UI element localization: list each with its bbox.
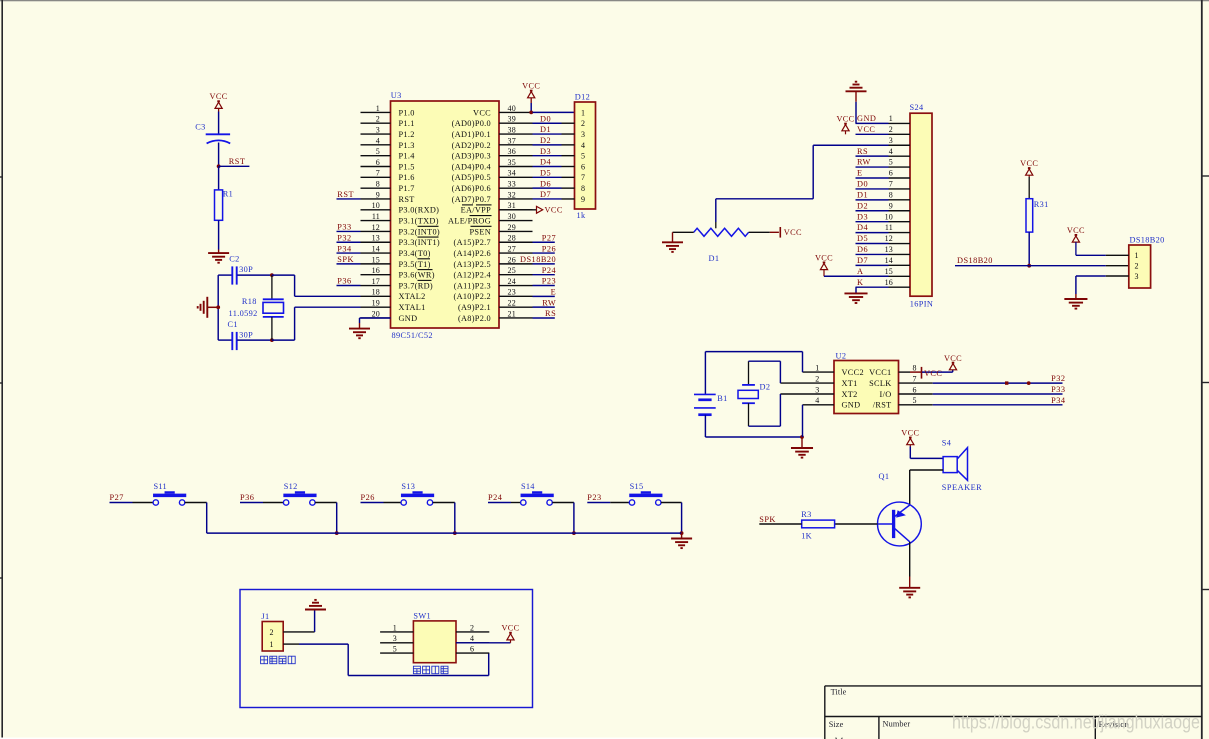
- left border zone tick 2: [0, 382, 2, 384]
- svg-text:16: 16: [885, 278, 893, 287]
- svg-text:SPEAKER: SPEAKER: [942, 483, 982, 492]
- U3 pin 38 ((AD1)P0.1): [499, 133, 533, 135]
- svg-text:(A15)P2.7: (A15)P2.7: [454, 238, 492, 247]
- svg-text:P1.1: P1.1: [399, 119, 415, 128]
- ground (below R1): [208, 252, 229, 254]
- wire VCC to R31: [1028, 177, 1030, 199]
- svg-text:DS18B20: DS18B20: [520, 255, 556, 264]
- svg-text:3: 3: [581, 130, 585, 139]
- switch SW1 body: [413, 621, 456, 663]
- sheet left border line: [1, 0, 3, 738]
- wire U2 pin7 SCLK to P32: [899, 382, 933, 384]
- svg-text:D4: D4: [540, 158, 551, 167]
- svg-text:6: 6: [581, 162, 585, 171]
- svg-text:P33: P33: [337, 223, 351, 232]
- svg-text:D12: D12: [575, 93, 590, 102]
- power port VCC (U3 pin 31, right arrow): [499, 209, 536, 211]
- wire battery to bottom rail: [704, 415, 706, 437]
- svg-text:1: 1: [815, 364, 819, 373]
- svg-text:P3.3(INT1): P3.3(INT1): [399, 238, 440, 247]
- svg-text:C3: C3: [195, 123, 205, 132]
- svg-text:1: 1: [581, 108, 585, 117]
- U3 pin 19 (XTAL1): [361, 306, 391, 308]
- power port VCC (U2 pin8 arrow): [922, 371, 953, 373]
- wire DS18B20 pin1: [1076, 254, 1106, 256]
- title block top line: [825, 685, 1202, 687]
- svg-text:34: 34: [508, 169, 516, 178]
- ground (DS18B20 pin3): [1064, 298, 1087, 300]
- svg-text:RST: RST: [399, 195, 415, 204]
- U3 overline INT0: [418, 225, 439, 227]
- S24 pin 11 D4: [856, 232, 889, 234]
- svg-text:31: 31: [508, 201, 516, 210]
- svg-text:D2: D2: [857, 201, 868, 210]
- node SCLK round junction: [1027, 381, 1031, 385]
- svg-text:11.0592: 11.0592: [229, 309, 258, 318]
- svg-text:Number: Number: [883, 720, 911, 729]
- U3 pin 36 ((AD3)P0.3): [499, 155, 533, 157]
- wire S24 pin1 to top ground: [855, 102, 857, 124]
- svg-text:P1.7: P1.7: [399, 184, 415, 193]
- svg-text:23: 23: [508, 288, 516, 297]
- svg-text:(AD4)P0.4: (AD4)P0.4: [452, 162, 492, 171]
- svg-text:C1: C1: [228, 320, 238, 329]
- U3 pin 16 (P3.6(WR)): [361, 274, 391, 276]
- svg-text:14: 14: [372, 244, 380, 253]
- svg-text:D1: D1: [857, 190, 868, 199]
- svg-text:D7: D7: [540, 190, 551, 199]
- svg-text:P26: P26: [361, 493, 375, 502]
- U3 overline PSEN: [471, 225, 492, 227]
- net label RW wire (U3 pin 22): [533, 306, 555, 308]
- svg-text:(AD0)P0.0: (AD0)P0.0: [452, 119, 491, 128]
- D1 left lead to ground: [673, 231, 694, 233]
- svg-text:6: 6: [376, 158, 380, 167]
- svg-text:37: 37: [508, 136, 516, 145]
- net label SPK wire (U3 pin 15): [337, 263, 361, 265]
- svg-text:P34: P34: [1051, 396, 1066, 405]
- wire U2 pin2 XT1 to D2: [780, 382, 834, 384]
- S24 pin 15 A: [856, 275, 889, 277]
- svg-text:28: 28: [508, 234, 516, 243]
- svg-text:P23: P23: [542, 277, 556, 286]
- svg-text:S15: S15: [630, 482, 644, 491]
- U3 pin 4 (P1.3): [361, 144, 391, 146]
- net label RST stub wire: [219, 165, 250, 167]
- svg-text:16PIN: 16PIN: [910, 299, 933, 308]
- svg-text:P1.3: P1.3: [399, 141, 415, 150]
- svg-text:VCC: VCC: [857, 125, 875, 134]
- svg-text:19: 19: [372, 299, 380, 308]
- svg-text:6: 6: [913, 385, 917, 394]
- svg-text:VCC1: VCC1: [869, 368, 891, 377]
- svg-text:B1: B1: [717, 394, 727, 403]
- svg-text:29: 29: [508, 223, 516, 232]
- svg-text:P36: P36: [337, 277, 351, 286]
- svg-text:DS18B20: DS18B20: [1130, 236, 1165, 245]
- SW1 pin 6: [456, 652, 489, 654]
- svg-text:GND: GND: [842, 401, 861, 410]
- title block left line: [824, 686, 826, 739]
- U3 pin 32 ((AD7)P0.7): [499, 198, 533, 200]
- svg-text:D1: D1: [540, 125, 551, 134]
- U3 overline EA/VPP: [462, 204, 473, 206]
- U3 pin 40 (VCC): [499, 111, 533, 113]
- svg-text:RW: RW: [542, 298, 556, 307]
- U3 pin 30 (ALE/PROG): [499, 220, 533, 222]
- U3 pin 10 (P3.0(RXD)): [361, 209, 391, 211]
- svg-text:18: 18: [372, 288, 380, 297]
- svg-text:https://blog.csdn.net/jianghux: https://blog.csdn.net/jianghuxiaoge: [952, 713, 1200, 734]
- svg-text:P1.6: P1.6: [399, 173, 415, 182]
- S24 pin 1 GND: [856, 122, 889, 124]
- svg-text:21: 21: [508, 309, 516, 318]
- svg-text:VCC: VCC: [836, 115, 854, 124]
- node crystal top junction: [270, 273, 274, 277]
- crystal R18 11.0592: [271, 275, 273, 299]
- crystal D2: [748, 361, 750, 385]
- U3 pin 21 ((A8)P2.0): [499, 317, 533, 319]
- svg-text:15: 15: [885, 267, 893, 276]
- svg-text:D6: D6: [857, 245, 868, 254]
- svg-text:P3.4(T0): P3.4(T0): [399, 249, 431, 258]
- net label P33 wire (U3 pin 12): [337, 230, 361, 232]
- right border zone tick 1: [1202, 175, 1209, 177]
- S24 pin 5 RW: [856, 166, 889, 168]
- node SCLK square junction: [1005, 381, 1008, 384]
- svg-text:7: 7: [889, 180, 893, 189]
- svg-text:4: 4: [889, 147, 893, 156]
- node U2 ground junction: [800, 435, 804, 439]
- right border zone tick 3: [1202, 589, 1209, 591]
- svg-text:R31: R31: [1034, 200, 1049, 209]
- svg-text:1: 1: [270, 640, 274, 649]
- power port VCC (S24 pin15): [823, 262, 826, 264]
- svg-text:D2: D2: [540, 136, 551, 145]
- svg-text:5: 5: [889, 158, 893, 167]
- net label P32 wire (U3 pin 13): [337, 241, 361, 243]
- S24 pin 8 D1: [856, 199, 889, 201]
- svg-text:P24: P24: [542, 266, 557, 275]
- svg-text:P3.0(RXD): P3.0(RXD): [399, 206, 440, 215]
- U3 pin 1 (P1.0): [361, 111, 391, 113]
- power port VCC bar (right of D1): [779, 227, 781, 238]
- svg-text:(AD7)P0.7: (AD7)P0.7: [452, 195, 491, 204]
- node R31/DS18B20 junction: [1027, 264, 1031, 268]
- svg-text:K: K: [857, 278, 863, 287]
- svg-text:2: 2: [376, 115, 380, 124]
- wire switch bus: [207, 532, 682, 534]
- svg-text:PSEN: PSEN: [470, 227, 492, 236]
- svg-text:(AD1)P0.1: (AD1)P0.1: [452, 130, 491, 139]
- capacitor C2: [218, 274, 232, 276]
- svg-text:4: 4: [470, 634, 474, 643]
- svg-text:(A10)P2.2: (A10)P2.2: [454, 292, 492, 301]
- svg-text:RS: RS: [545, 309, 556, 318]
- svg-text:U2: U2: [836, 351, 847, 360]
- svg-text:A: A: [857, 267, 863, 276]
- svg-text:GND: GND: [399, 314, 418, 323]
- ground (switch bus right end): [681, 533, 683, 538]
- svg-text:RW: RW: [857, 158, 871, 167]
- net label P36 wire (U3 pin 17): [337, 285, 361, 287]
- svg-text:32: 32: [508, 190, 516, 199]
- sheet top border line: [0, 0, 1209, 2]
- U3 pin 12 (P3.2(INT0)): [361, 230, 391, 232]
- svg-text:GND: GND: [857, 114, 876, 123]
- svg-text:VCC: VCC: [545, 206, 563, 215]
- SW1 pin 4: [456, 642, 489, 644]
- svg-text:P3.6(WR): P3.6(WR): [399, 271, 435, 280]
- svg-text:RST: RST: [229, 157, 246, 166]
- svg-text:VCC2: VCC2: [842, 368, 864, 377]
- svg-text:P3.2(INT0): P3.2(INT0): [399, 227, 440, 236]
- svg-text:36: 36: [508, 147, 516, 156]
- U3 pin 3 (P1.2): [361, 133, 391, 135]
- wire U2 pin5 /RST to P34: [899, 404, 933, 406]
- svg-text:10: 10: [885, 212, 893, 221]
- wire U2 pin6 I/O to P33: [899, 393, 933, 395]
- svg-text:SPK: SPK: [759, 515, 776, 524]
- svg-text:D5: D5: [540, 169, 551, 178]
- battery B1: [704, 352, 706, 395]
- wire S24 pin16 to ground: [855, 287, 857, 293]
- wire S14 to bus: [552, 502, 574, 504]
- svg-text:P27: P27: [110, 493, 124, 502]
- svg-text:2: 2: [270, 628, 274, 637]
- U3 pin 15 (P3.5(T1)): [361, 263, 391, 265]
- U3 overline T1: [418, 258, 431, 260]
- svg-text:6: 6: [889, 169, 893, 178]
- net label SPK wire: [759, 523, 801, 525]
- svg-text:1: 1: [376, 104, 380, 113]
- svg-text:R1: R1: [223, 190, 233, 199]
- svg-text:20: 20: [372, 309, 380, 318]
- svg-text:30P: 30P: [239, 265, 253, 274]
- resistor R3 1K: [802, 520, 835, 528]
- ground (below Q1): [899, 587, 920, 589]
- svg-text:16: 16: [372, 266, 380, 275]
- node bus junction at S12: [335, 531, 339, 535]
- node RST junction: [217, 164, 221, 168]
- svg-text:1: 1: [393, 623, 397, 632]
- svg-text:VCC: VCC: [784, 228, 802, 237]
- svg-text:2: 2: [889, 125, 893, 134]
- svg-text:14: 14: [885, 256, 893, 265]
- svg-text:D2: D2: [760, 383, 771, 392]
- wire R1 to ground: [218, 220, 220, 249]
- S24 pin 16 K: [856, 286, 889, 288]
- wire RST node to R1: [218, 166, 220, 190]
- svg-text:89C51/C52: 89C51/C52: [392, 331, 433, 340]
- net label DS18B20 wire (U3 pin 26): [533, 263, 555, 265]
- node bus junction at S14: [572, 531, 576, 535]
- U3 pin 22 ((A9)P2.1): [499, 306, 533, 308]
- U3 pin 26 ((A13)P2.5): [499, 263, 533, 265]
- power port VCC (SW1 pin4): [509, 632, 512, 634]
- SW1 pin 5: [380, 652, 413, 654]
- svg-text:RS: RS: [857, 147, 868, 156]
- wire J1 pin2 to ground: [283, 631, 314, 633]
- ground (U3 pin 20): [349, 328, 370, 330]
- node bus junction at S13: [453, 531, 457, 535]
- svg-text:4: 4: [581, 141, 585, 150]
- S24 pin 9 D2: [856, 210, 889, 212]
- svg-text:P1.2: P1.2: [399, 130, 415, 139]
- svg-text:Title: Title: [831, 688, 847, 697]
- U3 pin 34 ((AD5)P0.5): [499, 176, 533, 178]
- svg-text:D1: D1: [709, 254, 720, 263]
- power port VCC (DS18B20 pin1): [1075, 234, 1078, 236]
- svg-text:P3.1(TXD): P3.1(TXD): [399, 217, 439, 226]
- svg-text:VCC: VCC: [901, 429, 919, 438]
- wire U2 pin4 GND: [803, 404, 835, 406]
- wire DS18B20 pin3 to ground: [1076, 275, 1106, 277]
- svg-text:(AD2)P0.2: (AD2)P0.2: [452, 141, 491, 150]
- ground (left of D1): [662, 241, 683, 243]
- svg-text:(AD5)P0.5: (AD5)P0.5: [452, 173, 491, 182]
- svg-text:VCC: VCC: [522, 82, 540, 91]
- op-amp U3 body (89C51/C52 MCU): [391, 101, 500, 328]
- U3 pin 7 (P1.6): [361, 176, 391, 178]
- ground (left of crystal, rotated): [216, 305, 220, 309]
- svg-text:(AD6)P0.6: (AD6)P0.6: [452, 184, 491, 193]
- svg-text:26: 26: [508, 255, 516, 264]
- svg-text:8: 8: [581, 184, 585, 193]
- svg-text:P32: P32: [337, 233, 351, 242]
- svg-text:24: 24: [508, 277, 516, 286]
- wire U2 pin1 VCC2 to battery rail: [803, 371, 835, 373]
- svg-text:3: 3: [393, 634, 397, 643]
- ground (above J1 pin2, inverted): [305, 609, 326, 611]
- svg-text:3: 3: [889, 136, 893, 145]
- svg-text:11: 11: [885, 223, 893, 232]
- net label DS18B20 wire: [955, 265, 1106, 267]
- svg-text:XTAL2: XTAL2: [399, 292, 426, 301]
- svg-text:XT1: XT1: [842, 379, 858, 388]
- svg-text:D3: D3: [540, 147, 551, 156]
- svg-text:S14: S14: [521, 482, 535, 491]
- connector S24 (16PIN): [910, 113, 932, 296]
- U3 pin 29 (PSEN): [499, 230, 533, 232]
- svg-text:1k: 1k: [577, 211, 586, 220]
- title block Revision divider: [1094, 717, 1096, 739]
- U3 overline WR: [418, 269, 433, 271]
- svg-text:P1.0: P1.0: [399, 108, 415, 117]
- U3 pin 13 (P3.3(INT1)): [361, 241, 391, 243]
- U2 pin8 VCC1 bar port: [899, 371, 911, 373]
- svg-text:6: 6: [470, 645, 474, 654]
- svg-text:P33: P33: [1051, 385, 1065, 394]
- U3 pin 5 (P1.4): [361, 155, 391, 157]
- power port VCC (top-left): [217, 100, 220, 102]
- svg-text:P32: P32: [1051, 374, 1065, 383]
- net label P24 wire (U3 pin 25): [533, 274, 555, 276]
- S24 pin 2 VCC: [856, 133, 889, 135]
- S24 pin 14 D7: [856, 264, 889, 266]
- power section border box: [240, 590, 533, 708]
- svg-text:E: E: [857, 169, 863, 178]
- U3 pin 14 (P3.4(T0)): [361, 252, 391, 254]
- U3 pin 27 ((A14)P2.6): [499, 252, 533, 254]
- svg-text:VCC: VCC: [501, 624, 519, 633]
- wire C3 to RST node: [218, 143, 220, 167]
- connector J1: [262, 622, 283, 652]
- svg-text:7: 7: [581, 173, 585, 182]
- svg-text:RST: RST: [337, 190, 354, 199]
- svg-text:13: 13: [372, 234, 380, 243]
- svg-text:/RST: /RST: [873, 401, 892, 410]
- net label E wire (U3 pin 23): [533, 295, 555, 297]
- svg-text:P34: P34: [337, 244, 352, 253]
- svg-text:8: 8: [913, 364, 917, 373]
- capacitor C1: [218, 339, 232, 341]
- left border zone tick 1: [0, 176, 2, 178]
- U3 pin 37 ((AD2)P0.2): [499, 144, 533, 146]
- U3 GND pin 20 wire to ground: [360, 317, 391, 319]
- U3 pin 23 ((A10)P2.2): [499, 295, 533, 297]
- svg-text:40: 40: [508, 104, 516, 113]
- svg-text:30P: 30P: [239, 331, 253, 340]
- svg-text:P26: P26: [542, 244, 556, 253]
- svg-text:J1: J1: [261, 612, 269, 621]
- transistor Q1 (PNP): [878, 502, 922, 546]
- svg-text:4: 4: [376, 136, 380, 145]
- svg-text:E: E: [551, 288, 557, 297]
- net label P27 wire (U3 pin 28): [533, 241, 555, 243]
- wire S15 to bus: [661, 502, 682, 504]
- svg-text:38: 38: [508, 125, 516, 134]
- ground (below S24 pin16): [844, 292, 867, 294]
- U3 pin 20 (GND): [361, 317, 391, 319]
- svg-text:9: 9: [376, 190, 380, 199]
- svg-text:VCC: VCC: [815, 253, 833, 262]
- svg-text:17: 17: [372, 277, 380, 286]
- svg-text:P23: P23: [587, 493, 601, 502]
- U3 pin 28 ((A15)P2.7): [499, 241, 533, 243]
- svg-text:8: 8: [889, 190, 893, 199]
- SW1 pin 1: [380, 631, 413, 633]
- svg-text:25: 25: [508, 266, 516, 275]
- svg-text:11: 11: [372, 212, 380, 221]
- svg-text:5: 5: [376, 147, 380, 156]
- svg-text:2: 2: [1135, 262, 1139, 271]
- power port VCC (above R31): [1028, 167, 1031, 169]
- node crystal bottom junction: [270, 338, 274, 342]
- svg-text:SW1: SW1: [413, 612, 431, 621]
- wire R31 to DS18B20 net: [1028, 232, 1030, 266]
- sheet right border line: [1201, 0, 1203, 739]
- U3 overline PROG: [470, 215, 492, 217]
- svg-text:30: 30: [508, 212, 516, 221]
- U3 pin 8 (P1.7): [361, 187, 391, 189]
- svg-text:7: 7: [913, 375, 917, 384]
- wire speaker to Q1 collector: [910, 469, 943, 471]
- svg-text:D4: D4: [857, 223, 868, 232]
- svg-text:12: 12: [372, 223, 380, 232]
- svg-text:D3: D3: [857, 212, 868, 221]
- svg-text:VCC: VCC: [1067, 226, 1085, 235]
- U3 overline INT1: [418, 236, 439, 238]
- svg-text:35: 35: [508, 158, 516, 167]
- svg-text:(A12)P2.4: (A12)P2.4: [454, 271, 492, 280]
- svg-text:VCC: VCC: [210, 92, 228, 101]
- node bus junction at S15: [680, 531, 684, 535]
- power port VCC (S24 pin2): [844, 123, 847, 125]
- U3 pin 24 ((A11)P2.3): [499, 285, 533, 287]
- S24 pin 6 E: [856, 177, 889, 179]
- U3 pin 6 (P1.5): [361, 166, 391, 168]
